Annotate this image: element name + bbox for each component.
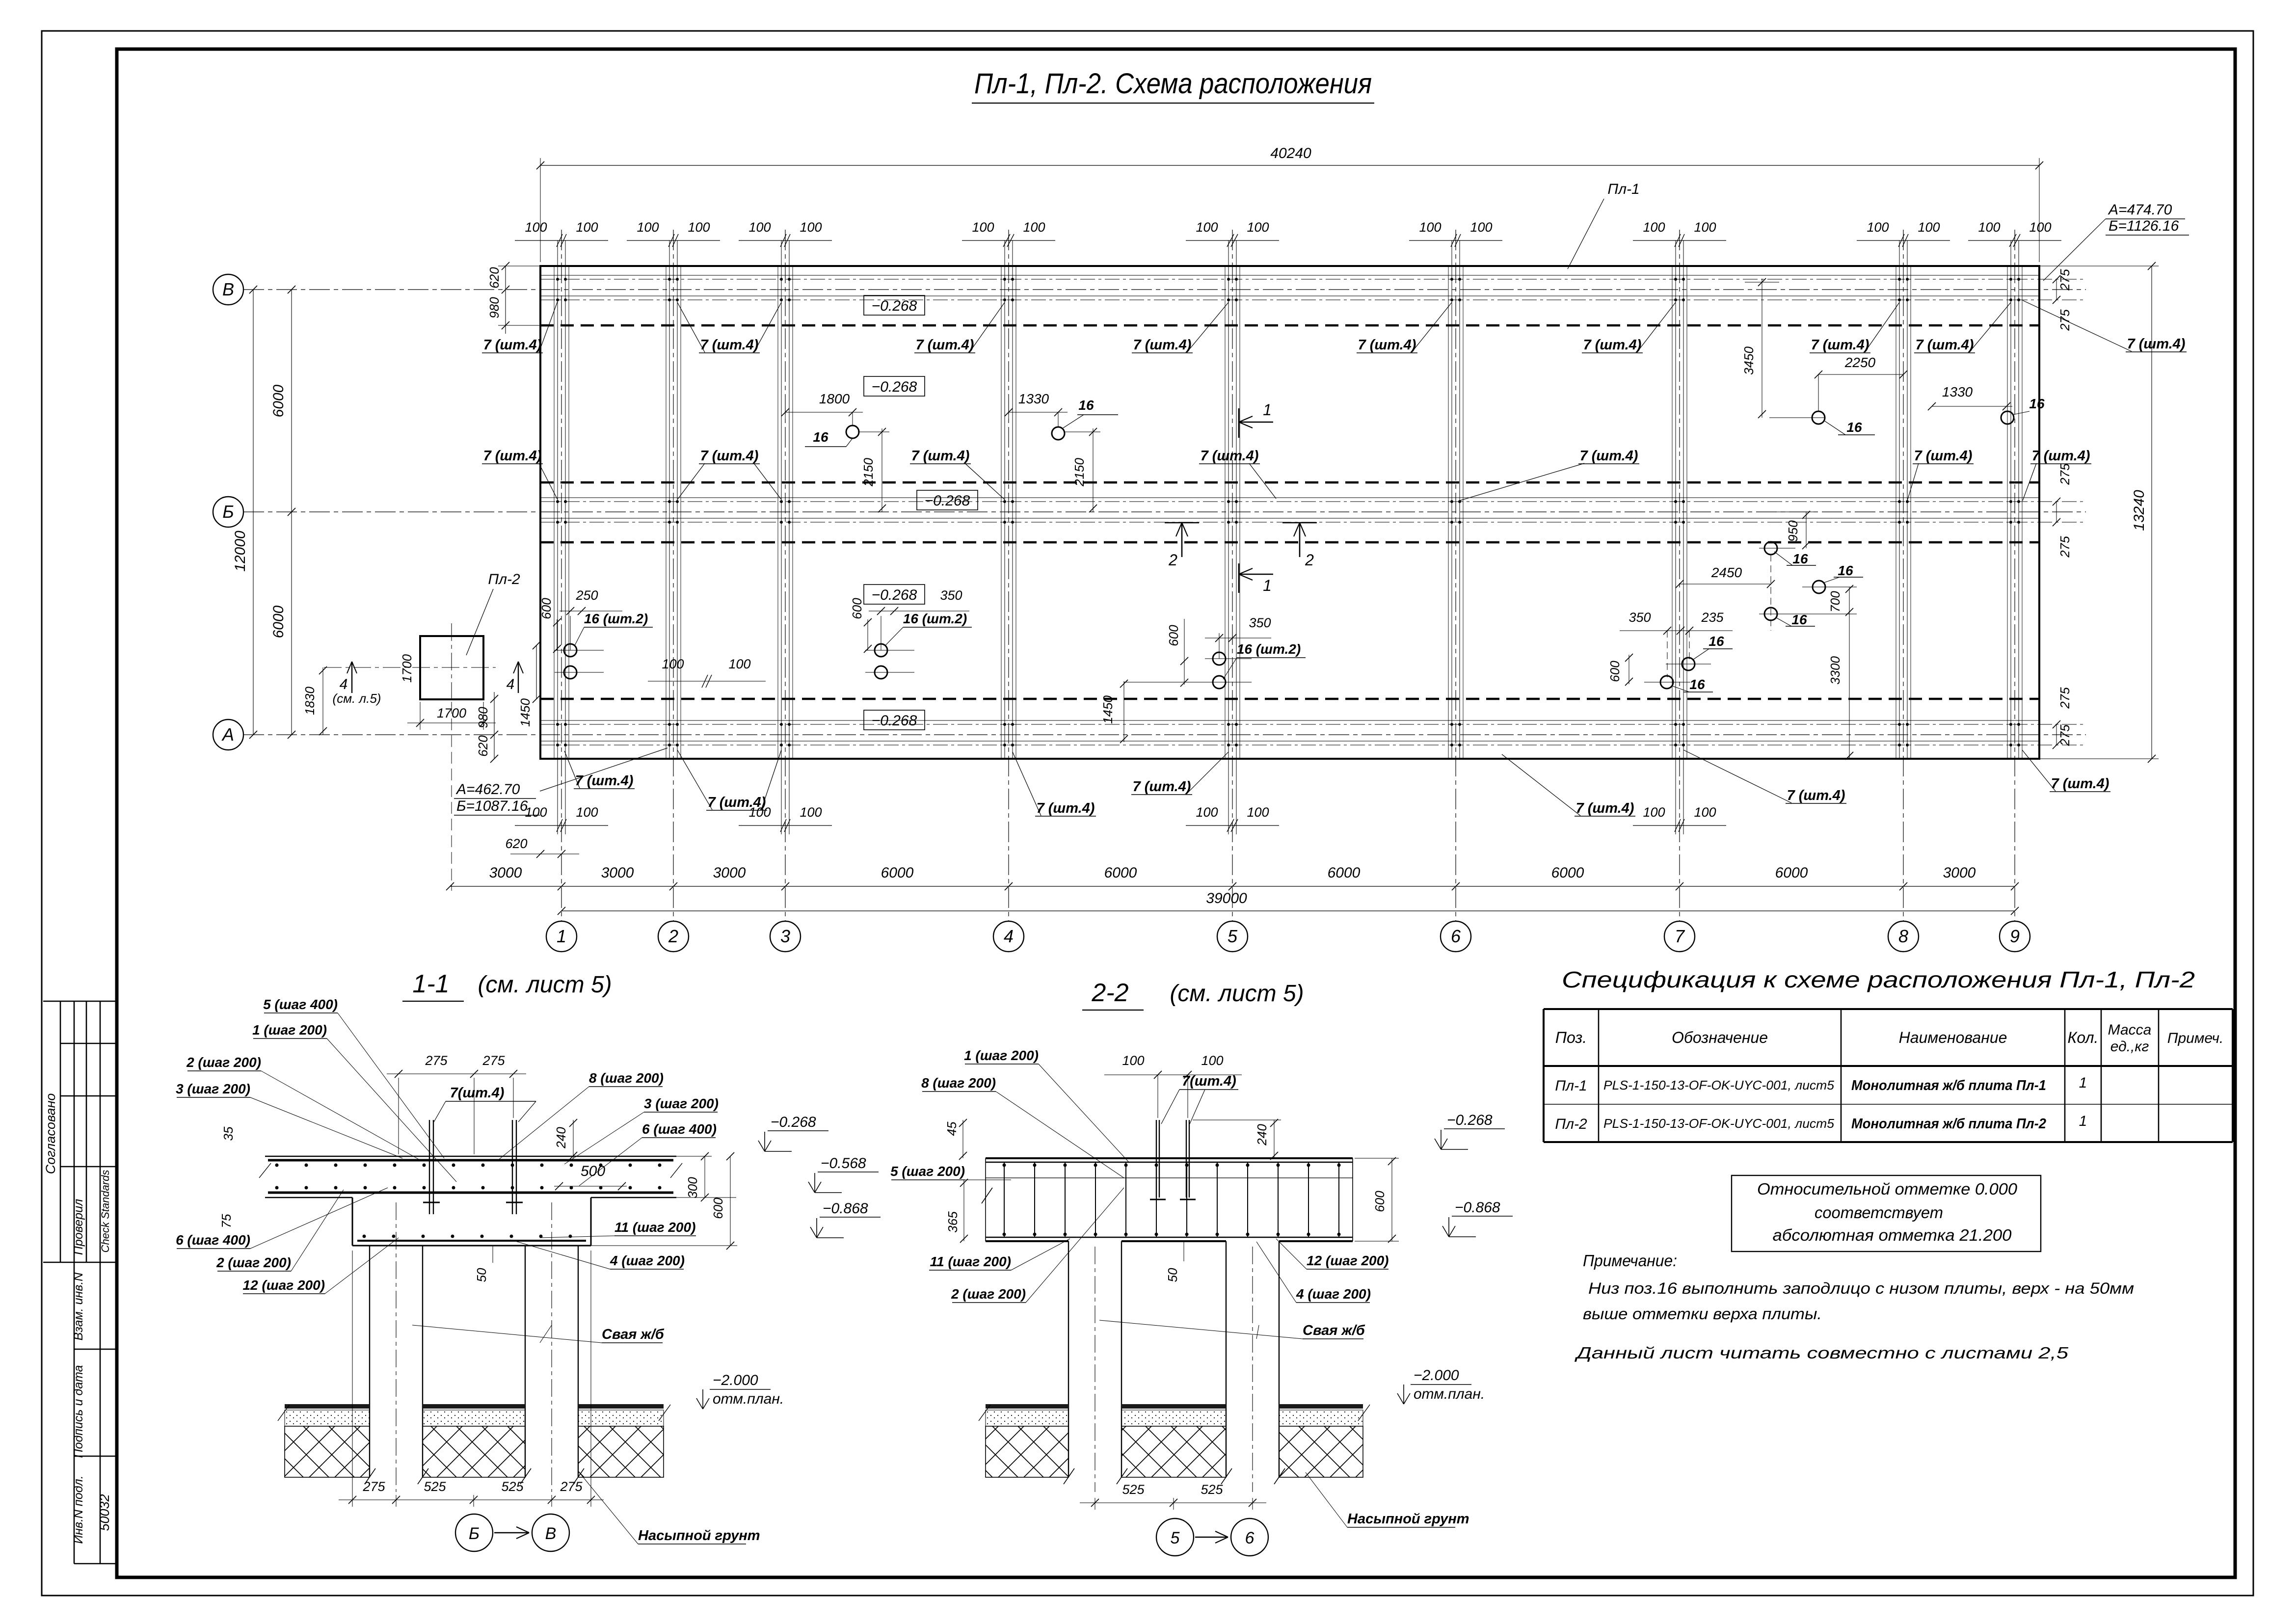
- svg-text:2: 2: [668, 926, 678, 946]
- svg-text:700: 700: [1828, 591, 1842, 612]
- section 2-2 ground layers: [986, 1404, 1068, 1409]
- dimension 40240: [540, 165, 2039, 166]
- svg-text:Пл-1: Пл-1: [1555, 1078, 1587, 1094]
- svg-text:240: 240: [1255, 1124, 1269, 1146]
- svg-text:абсолютная отметка 21.200: абсолютная отметка 21.200: [1773, 1226, 2012, 1244]
- svg-text:6000: 6000: [1775, 865, 1808, 881]
- section 1-1 ground layers: [285, 1404, 370, 1409]
- svg-text:1450: 1450: [1100, 695, 1115, 724]
- svg-text:100: 100: [1247, 220, 1269, 235]
- svg-text:39000: 39000: [1206, 890, 1247, 906]
- svg-text:Поз.: Поз.: [1555, 1029, 1587, 1046]
- dimension 12000 left: [253, 290, 254, 735]
- axis circle 9: [2000, 921, 2030, 952]
- svg-text:Проверил: Проверил: [72, 1199, 85, 1255]
- axis circle 4: [993, 921, 1024, 952]
- svg-text:7 (шт.4): 7 (шт.4): [1133, 779, 1191, 795]
- svg-text:6000: 6000: [881, 865, 914, 881]
- axis circle 6: [1441, 921, 1471, 952]
- svg-text:275: 275: [2057, 536, 2072, 558]
- svg-text:В: В: [545, 1524, 557, 1543]
- axis 3 column line: [785, 230, 786, 922]
- svg-text:1 (шаг 200): 1 (шаг 200): [964, 1048, 1039, 1063]
- svg-text:100: 100: [576, 805, 598, 820]
- svg-text:240: 240: [554, 1127, 568, 1149]
- svg-text:6 (шаг 400): 6 (шаг 400): [642, 1121, 717, 1137]
- svg-text:А=462.70: А=462.70: [455, 781, 520, 798]
- svg-text:7 (шт.4): 7 (шт.4): [1133, 337, 1192, 353]
- svg-text:(см. лист 5): (см. лист 5): [1170, 981, 1304, 1007]
- svg-text:PLS-1-150-13-OF-OK-UYC-001, ли: PLS-1-150-13-OF-OK-UYC-001, лист5: [1603, 1116, 1835, 1131]
- specification table grid: [1544, 1008, 2233, 1010]
- slab Пл-2 outline: [420, 636, 483, 699]
- svg-text:2 (шаг 200): 2 (шаг 200): [186, 1055, 261, 1070]
- svg-text:1: 1: [2079, 1113, 2087, 1129]
- svg-text:100: 100: [2029, 220, 2051, 235]
- svg-text:1700: 1700: [400, 654, 414, 683]
- section 2-2 embedded plates 7: [1156, 1120, 1157, 1198]
- svg-text:100: 100: [1470, 220, 1492, 235]
- dimension 100/100 bottom: [739, 825, 832, 826]
- svg-text:Б: Б: [222, 502, 234, 522]
- svg-text:100: 100: [748, 220, 771, 235]
- elevation box -0.268: [917, 490, 978, 510]
- svg-text:4 (шаг 200): 4 (шаг 200): [1296, 1286, 1371, 1302]
- svg-text:Пл-1: Пл-1: [1607, 181, 1639, 197]
- section marker 4 left: [351, 662, 352, 693]
- svg-text:1: 1: [1263, 401, 1272, 419]
- anchor 16 callouts col7 lower: [1682, 658, 1695, 670]
- svg-text:1 (шаг 200): 1 (шаг 200): [252, 1022, 327, 1038]
- anchor group 16 col5: [1213, 652, 1226, 665]
- svg-text:1700: 1700: [437, 706, 466, 720]
- axis circle 8: [1888, 921, 1919, 952]
- svg-text:−0.268: −0.268: [872, 713, 917, 729]
- dimension 100/100 bottom: [1633, 825, 1726, 826]
- svg-text:620: 620: [505, 836, 527, 851]
- svg-text:отм.план.: отм.план.: [1414, 1386, 1485, 1402]
- axis circle 1: [546, 921, 577, 952]
- svg-text:Насыпной грунт: Насыпной грунт: [1347, 1511, 1469, 1527]
- svg-text:7 (шт.4): 7 (шт.4): [2032, 448, 2090, 464]
- svg-text:100: 100: [800, 805, 822, 820]
- svg-text:−0.268: −0.268: [1447, 1112, 1493, 1128]
- svg-text:100: 100: [1643, 805, 1665, 820]
- svg-text:100: 100: [800, 220, 822, 235]
- svg-text:3: 3: [780, 926, 790, 946]
- svg-text:3450: 3450: [1741, 346, 1756, 375]
- svg-text:6000: 6000: [270, 384, 287, 417]
- svg-text:1: 1: [557, 926, 566, 946]
- svg-text:275: 275: [2057, 687, 2072, 709]
- svg-text:6000: 6000: [270, 605, 287, 638]
- section 2-2 stirrups: [1004, 1162, 1005, 1237]
- axis circle 5: [1217, 921, 1248, 952]
- svg-text:620: 620: [487, 267, 502, 289]
- svg-text:4: 4: [340, 676, 348, 692]
- svg-text:350: 350: [940, 588, 962, 603]
- section 1-1 bottom dimensions: [339, 1499, 604, 1500]
- svg-text:7 (шт.4): 7 (шт.4): [2127, 336, 2186, 352]
- svg-text:2: 2: [1305, 551, 1314, 569]
- svg-text:100: 100: [525, 805, 547, 820]
- svg-text:Б: Б: [469, 1524, 480, 1543]
- svg-text:1: 1: [2079, 1075, 2087, 1091]
- svg-text:75: 75: [219, 1214, 234, 1228]
- svg-text:9: 9: [2010, 926, 2020, 946]
- axis 6 column line: [1455, 230, 1456, 922]
- svg-text:Подпись и дата: Подпись и дата: [72, 1365, 85, 1458]
- svg-text:3000: 3000: [601, 865, 634, 881]
- svg-text:16 (шт.2): 16 (шт.2): [1237, 641, 1301, 657]
- svg-text:16: 16: [1689, 677, 1705, 692]
- svg-text:600: 600: [1166, 625, 1181, 646]
- section 1-1 pile cap: [352, 1198, 353, 1246]
- svg-text:1830: 1830: [302, 687, 317, 715]
- svg-text:6 (шаг 400): 6 (шаг 400): [176, 1232, 250, 1248]
- svg-text:525: 525: [501, 1479, 524, 1494]
- svg-text:Свая ж/б: Свая ж/б: [1303, 1323, 1365, 1338]
- svg-text:7 (шт.4): 7 (шт.4): [1037, 800, 1095, 816]
- svg-text:12000: 12000: [232, 531, 248, 572]
- pile dots axis 5: [1227, 278, 1230, 281]
- section marker 2 left: [1165, 522, 1199, 524]
- axis circle 3: [770, 921, 801, 952]
- svg-text:Инв.N подл.: Инв.N подл.: [72, 1475, 85, 1544]
- svg-text:980: 980: [487, 297, 502, 319]
- svg-text:100: 100: [1918, 220, 1940, 235]
- svg-text:7 (шт.4): 7 (шт.4): [1787, 788, 1845, 803]
- svg-text:Насыпной грунт: Насыпной грунт: [638, 1528, 760, 1544]
- Пл-2 center lines: [451, 623, 452, 707]
- svg-text:7 (шт.4): 7 (шт.4): [708, 795, 766, 810]
- svg-text:7 (шт.4): 7 (шт.4): [1358, 337, 1416, 353]
- svg-text:7 (шт.4): 7 (шт.4): [911, 448, 970, 464]
- svg-text:235: 235: [1701, 610, 1724, 625]
- dimension 100/100 top axis 1: [515, 240, 608, 241]
- svg-text:100: 100: [1196, 805, 1218, 820]
- svg-text:2150: 2150: [861, 458, 876, 487]
- thick dashed line 1: [540, 324, 2039, 327]
- svg-text:(см. лист 5): (см. лист 5): [478, 972, 612, 998]
- axis 5 column line: [1232, 230, 1233, 922]
- svg-text:7 (шт.4): 7 (шт.4): [483, 337, 542, 353]
- svg-text:300: 300: [685, 1177, 700, 1198]
- svg-text:1: 1: [1263, 577, 1272, 594]
- svg-text:6000: 6000: [1104, 865, 1137, 881]
- svg-text:Примеч.: Примеч.: [2167, 1030, 2224, 1046]
- svg-text:250: 250: [575, 588, 598, 603]
- thick dashed line 4: [540, 698, 2039, 700]
- svg-text:7 (шт.4): 7 (шт.4): [1580, 448, 1638, 464]
- elevation box -0.268: [864, 295, 925, 315]
- svg-text:100: 100: [688, 220, 710, 235]
- svg-text:5: 5: [1171, 1529, 1180, 1547]
- svg-text:100: 100: [662, 657, 684, 671]
- svg-text:Данный лист читать совместн: Данный лист читать совместно с листами 2…: [1574, 1344, 2069, 1362]
- svg-text:275: 275: [2057, 269, 2072, 291]
- svg-text:7 (шт.4): 7 (шт.4): [1916, 337, 1974, 353]
- svg-text:1330: 1330: [1018, 391, 1049, 406]
- svg-text:6: 6: [1451, 926, 1461, 946]
- section 1-1 slab break marks: [259, 1163, 271, 1178]
- svg-text:Монолитная ж/б плита Пл-1: Монолитная ж/б плита Пл-1: [1851, 1078, 2046, 1093]
- svg-text:16: 16: [1838, 563, 1853, 578]
- dimension 100/100 top axis 9: [1968, 240, 2061, 241]
- svg-text:Низ поз.16 выполнить заподл: Низ поз.16 выполнить заподлицо с низом п…: [1588, 1279, 2134, 1297]
- svg-text:16: 16: [2029, 396, 2045, 411]
- svg-text:16: 16: [813, 429, 828, 445]
- stamp table margin: [60, 1001, 61, 1262]
- svg-text:16 (шт.2): 16 (шт.2): [584, 611, 648, 626]
- svg-text:5 (шаг 200): 5 (шаг 200): [890, 1164, 965, 1179]
- pile dots axis 8: [1898, 278, 1901, 281]
- svg-text:Согласовано: Согласовано: [43, 1093, 58, 1174]
- svg-text:отм.план.: отм.план.: [713, 1391, 784, 1407]
- dimension 100/100 top axis 6: [1409, 240, 1502, 241]
- svg-text:7 (шт.4): 7 (шт.4): [1576, 800, 1634, 816]
- dimension 100/100 top axis 4: [962, 240, 1055, 241]
- svg-text:8: 8: [1898, 926, 1908, 946]
- svg-text:(см. л.5): (см. л.5): [333, 691, 381, 706]
- pile dots axis 9: [2009, 278, 2012, 281]
- section 1-1 dimension 275/275: [387, 1073, 526, 1074]
- svg-text:100: 100: [1694, 220, 1716, 235]
- svg-text:−0.268: −0.268: [771, 1114, 816, 1130]
- axis Б line: [243, 511, 2086, 512]
- section 1-1 piles: [369, 1246, 370, 1477]
- section 2-2 piles: [1068, 1241, 1069, 1477]
- axis В line: [243, 289, 2086, 290]
- svg-text:4: 4: [1004, 926, 1014, 946]
- svg-text:А=474.70: А=474.70: [2108, 202, 2172, 218]
- svg-text:выше отметки верха плиты.: выше отметки верха плиты.: [1583, 1305, 1822, 1323]
- pile dots axis 4: [1003, 278, 1006, 281]
- axis А line: [243, 734, 2086, 735]
- svg-text:525: 525: [424, 1479, 446, 1494]
- axis 9 column line: [2014, 230, 2015, 922]
- svg-text:16: 16: [1709, 634, 1724, 649]
- svg-text:100: 100: [1196, 220, 1218, 235]
- svg-text:2 (шаг 200): 2 (шаг 200): [216, 1255, 291, 1270]
- section marker 4 right: [518, 662, 519, 693]
- svg-text:7 (шт.4): 7 (шт.4): [575, 773, 634, 789]
- section 2-2 slab break mark: [982, 1188, 992, 1203]
- dimension chain 620/980 bottom-left: [494, 692, 495, 759]
- svg-text:16: 16: [1846, 420, 1862, 435]
- dimension 100/100 bottom: [515, 825, 608, 826]
- dimension 1450 col1: [536, 645, 537, 699]
- svg-text:350: 350: [1249, 615, 1271, 630]
- svg-text:Спецификация к схеме распол: Спецификация к схеме расположения Пл-1, …: [1562, 967, 2195, 992]
- svg-text:500: 500: [581, 1163, 605, 1179]
- dimension 13240 right: [2151, 266, 2152, 759]
- svg-text:350: 350: [1629, 610, 1651, 625]
- svg-text:1-1: 1-1: [412, 970, 449, 998]
- slab Пл-1 outline: [540, 266, 2039, 759]
- dimension 39000 bottom: [561, 910, 2015, 911]
- dimension 100/100 top axis 3: [739, 240, 832, 241]
- svg-text:4: 4: [507, 676, 515, 692]
- dimension 100/100 top axis 2: [627, 240, 720, 241]
- svg-text:Б=1126.16: Б=1126.16: [2109, 218, 2179, 234]
- svg-text:365: 365: [945, 1211, 960, 1233]
- section marker 1 lower: [1238, 563, 1240, 593]
- svg-text:2: 2: [1168, 551, 1177, 569]
- svg-text:600: 600: [539, 598, 554, 619]
- svg-text:275: 275: [482, 1053, 505, 1068]
- svg-text:45: 45: [944, 1121, 959, 1136]
- svg-text:100: 100: [1694, 805, 1716, 820]
- section 1-1 embedded plates 7: [429, 1120, 430, 1214]
- axis circle В: [213, 274, 243, 305]
- svg-text:В: В: [222, 279, 234, 299]
- svg-text:1450: 1450: [518, 698, 533, 727]
- svg-text:Пл-2: Пл-2: [488, 571, 520, 587]
- dimension 100/100 top axis 7: [1633, 240, 1726, 241]
- svg-text:100: 100: [972, 220, 994, 235]
- svg-text:3000: 3000: [713, 865, 746, 881]
- dimension 100/100 bottom: [1186, 825, 1279, 826]
- svg-text:PLS-1-150-13-OF-OK-UYC-001, ли: PLS-1-150-13-OF-OK-UYC-001, лист5: [1603, 1078, 1835, 1092]
- svg-text:16: 16: [1078, 398, 1094, 413]
- svg-text:600: 600: [1372, 1191, 1387, 1212]
- anchor group 16 col3: [875, 644, 887, 657]
- extension line Пл-2 axis: [451, 702, 452, 891]
- note box relative elevation: [1732, 1175, 2041, 1251]
- pile row lines axis Б: [540, 501, 2086, 502]
- svg-text:275: 275: [2057, 724, 2072, 746]
- svg-text:100: 100: [1023, 220, 1045, 235]
- dimension 100/100 top axis 8: [1857, 240, 1950, 241]
- svg-text:7 (шт.4): 7 (шт.4): [483, 448, 542, 464]
- svg-text:3 (шаг 200): 3 (шаг 200): [176, 1081, 250, 1096]
- dimension 100/100 top axis 5: [1186, 240, 1279, 241]
- svg-text:3000: 3000: [1943, 865, 1976, 881]
- svg-text:Взам. инв.N: Взам. инв.N: [72, 1272, 85, 1341]
- svg-text:1800: 1800: [819, 391, 850, 406]
- dimension 6000/6000 left: [291, 290, 292, 735]
- svg-text:16 (шт.2): 16 (шт.2): [903, 611, 967, 626]
- svg-text:13240: 13240: [2131, 490, 2147, 531]
- svg-text:16: 16: [1791, 612, 1807, 627]
- svg-text:2250: 2250: [1844, 355, 1876, 370]
- svg-text:100: 100: [525, 220, 547, 235]
- svg-text:35: 35: [221, 1126, 236, 1141]
- svg-text:5 (шаг 400): 5 (шаг 400): [263, 997, 338, 1012]
- svg-text:50: 50: [1165, 1268, 1180, 1282]
- section 2-2 bottom dimensions: [1080, 1502, 1266, 1503]
- svg-text:5: 5: [1228, 926, 1238, 946]
- pile dots axis 7: [1674, 278, 1677, 281]
- section 2-2 slab: [986, 1157, 1353, 1159]
- svg-text:3 (шаг 200): 3 (шаг 200): [644, 1096, 719, 1111]
- svg-text:275: 275: [2057, 463, 2072, 485]
- svg-text:11 (шаг 200): 11 (шаг 200): [930, 1254, 1011, 1269]
- svg-text:Обозначение: Обозначение: [1672, 1029, 1768, 1046]
- svg-text:3000: 3000: [489, 865, 522, 881]
- svg-text:7 (шт.4): 7 (шт.4): [2051, 776, 2109, 792]
- svg-text:7 (шт.4): 7 (шт.4): [1811, 337, 1869, 353]
- axis 7 column line: [1679, 230, 1680, 922]
- svg-text:7 (шт.4): 7 (шт.4): [1583, 337, 1642, 353]
- section 2-2 dimension 100/100: [1104, 1074, 1242, 1075]
- svg-text:100: 100: [1419, 220, 1441, 235]
- svg-text:100: 100: [1247, 805, 1269, 820]
- svg-text:−0.268: −0.268: [872, 298, 917, 314]
- svg-text:600: 600: [1607, 661, 1622, 682]
- svg-text:100: 100: [1201, 1053, 1223, 1068]
- svg-text:275: 275: [560, 1479, 583, 1494]
- svg-text:8 (шаг 200): 8 (шаг 200): [589, 1070, 664, 1086]
- svg-text:Пл-1, Пл-2. Схема расположени: Пл-1, Пл-2. Схема расположения: [974, 68, 1372, 100]
- elevation box -0.268: [864, 376, 925, 396]
- axis circle 7: [1664, 921, 1695, 952]
- svg-text:6000: 6000: [1328, 865, 1361, 881]
- svg-text:16: 16: [1792, 551, 1808, 566]
- svg-text:620: 620: [476, 735, 490, 757]
- pile dots axis 6: [1450, 278, 1453, 281]
- svg-text:525: 525: [1122, 1482, 1145, 1497]
- svg-text:Примечание:: Примечание:: [1583, 1251, 1677, 1270]
- svg-text:2450: 2450: [1711, 565, 1742, 580]
- svg-text:100: 100: [1978, 220, 2000, 235]
- svg-text:2150: 2150: [1072, 458, 1087, 487]
- pile dots axis 1: [556, 278, 559, 281]
- svg-text:1330: 1330: [1942, 384, 1973, 399]
- section 1-1 slab: [265, 1156, 676, 1157]
- svg-text:Относительной отметке 0.000: Относительной отметке 0.000: [1757, 1180, 2018, 1198]
- svg-text:50032: 50032: [97, 1494, 112, 1531]
- svg-text:Кол.: Кол.: [2068, 1029, 2099, 1046]
- svg-text:соответствует: соответствует: [1815, 1203, 1943, 1222]
- dimensions 275 right side: [2056, 279, 2057, 300]
- svg-text:7 (шт.4): 7 (шт.4): [700, 448, 759, 464]
- svg-text:7 (шт.4): 7 (шт.4): [1201, 448, 1259, 464]
- svg-text:−0.268: −0.268: [872, 379, 917, 395]
- svg-text:12 (шаг 200): 12 (шаг 200): [243, 1278, 325, 1293]
- svg-text:525: 525: [1201, 1482, 1223, 1497]
- svg-text:12 (шаг 200): 12 (шаг 200): [1307, 1253, 1388, 1268]
- svg-text:6000: 6000: [1551, 865, 1584, 881]
- svg-text:7 (шт.4): 7 (шт.4): [916, 337, 974, 353]
- axis 1 column line: [561, 230, 562, 922]
- axis circle А: [213, 719, 243, 750]
- svg-text:Пл-2: Пл-2: [1555, 1116, 1587, 1132]
- anchor 16 callout col7-8 middle: [1813, 581, 1825, 593]
- svg-text:7(шт.4): 7(шт.4): [1182, 1073, 1236, 1089]
- section 1-1 view direction Б-В: [455, 1514, 493, 1551]
- svg-text:7 (шт.4): 7 (шт.4): [700, 337, 759, 353]
- anchor group 16 col1: [564, 644, 577, 657]
- svg-text:50: 50: [474, 1268, 489, 1282]
- svg-text:950: 950: [1786, 520, 1800, 542]
- section marker 1 upper: [1238, 408, 1240, 438]
- pile row lines axis А: [540, 724, 2086, 725]
- svg-text:−0.568: −0.568: [821, 1155, 866, 1171]
- axis 8 column line: [1903, 230, 1904, 922]
- svg-text:7 (шт.4): 7 (шт.4): [1914, 448, 1973, 464]
- svg-text:8 (шаг 200): 8 (шаг 200): [921, 1075, 996, 1091]
- axis 4 column line: [1008, 230, 1009, 922]
- svg-text:Монолитная ж/б плита Пл-2: Монолитная ж/б плита Пл-2: [1851, 1116, 2046, 1132]
- svg-text:7: 7: [1675, 926, 1685, 946]
- svg-text:Check Standards: Check Standards: [99, 1170, 111, 1253]
- svg-text:Масса: Масса: [2108, 1022, 2152, 1038]
- pile dots axis 2: [668, 278, 671, 281]
- svg-text:Б=1087.16: Б=1087.16: [456, 798, 528, 814]
- svg-text:А: А: [221, 724, 234, 745]
